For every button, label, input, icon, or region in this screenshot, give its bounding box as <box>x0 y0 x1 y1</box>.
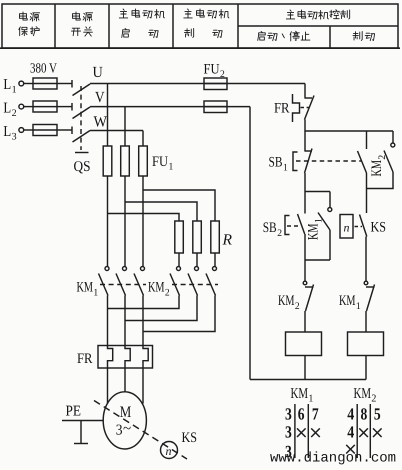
wire PE drop <box>80 421 82 444</box>
svg-text:1: 1 <box>93 288 98 299</box>
QS blade pole3 <box>73 131 91 143</box>
svg-text:L: L <box>3 77 11 93</box>
terminal L1 <box>19 81 24 86</box>
wire bus V <box>90 106 250 108</box>
svg-text:1: 1 <box>12 85 17 96</box>
svg-text:SB: SB <box>263 220 277 236</box>
wire branch to SB1 NO <box>366 131 368 149</box>
svg-text:1: 1 <box>283 163 288 174</box>
contactor KM2 main pole2 <box>195 267 199 271</box>
FR heater element1 <box>108 346 113 369</box>
wire phase3 below FU1 <box>142 176 144 266</box>
wire to KM1 aux <box>329 192 331 208</box>
header cell5 text 主电动机控制 <box>286 10 294 19</box>
svg-text:2: 2 <box>371 394 376 405</box>
svg-text:QS: QS <box>74 159 91 175</box>
svg-text:2: 2 <box>377 155 388 160</box>
svg-text:3: 3 <box>285 423 292 442</box>
header table outer border <box>2 4 398 48</box>
KM2 NC circle <box>303 281 307 285</box>
wire coil KM2 to bus <box>365 355 367 380</box>
QS fixed contact tick pole1 <box>71 80 73 88</box>
header subcell 制动 <box>353 31 362 40</box>
contactor KM2 main pole3 <box>213 267 217 271</box>
header table column divider 1 <box>54 4 56 48</box>
svg-text:2: 2 <box>295 301 300 312</box>
wire drop phase W <box>142 131 144 147</box>
resistor R element1 <box>175 221 184 253</box>
wire KM1 pole2 down <box>124 296 126 346</box>
wire phase2 below FU1 <box>124 176 126 266</box>
wire fuse to QS pole2 <box>57 106 72 108</box>
header table column divider 4 <box>237 4 239 48</box>
FR heater element3 <box>143 346 148 369</box>
svg-text:KM: KM <box>77 280 94 296</box>
svg-text:FU: FU <box>152 154 168 170</box>
wire tap U to resistor1 <box>108 214 180 222</box>
label KM2 rotated <box>369 155 388 177</box>
wire KM2 selfhold down <box>367 172 394 189</box>
svg-text:R: R <box>221 232 232 249</box>
QS handle bar <box>75 152 89 154</box>
bottom bus <box>250 379 366 381</box>
svg-text:L: L <box>3 101 11 117</box>
SB1 button bracket <box>293 152 298 171</box>
wire to SB2 <box>304 192 306 214</box>
svg-text:n: n <box>344 221 350 235</box>
KM2 table divider1 <box>356 404 358 458</box>
svg-text:FR: FR <box>77 351 93 367</box>
svg-text:KM: KM <box>306 223 322 240</box>
header table column divider 3 <box>172 4 174 48</box>
junction bar SB2/KM1aux bottom <box>305 259 330 261</box>
label KM1 rotated <box>306 218 325 240</box>
svg-text:L: L <box>3 124 11 140</box>
svg-text:FR: FR <box>274 101 290 117</box>
fuse FU2b on V <box>204 101 227 113</box>
FR NC contact tick <box>304 97 312 99</box>
svg-text:PE: PE <box>66 404 82 420</box>
KM1 table divider2 <box>307 404 309 458</box>
QS blade pole2 <box>73 107 91 119</box>
wire coil KM1 to bus <box>304 355 306 380</box>
terminal L2 <box>19 104 24 109</box>
svg-text:U: U <box>93 64 103 81</box>
KM1 NC tick <box>366 286 375 288</box>
svg-text:380 V: 380 V <box>30 62 57 77</box>
FR actuator bracket <box>293 94 300 122</box>
wire U to control <box>304 84 306 98</box>
svg-text:6: 6 <box>298 405 305 424</box>
svg-text:1: 1 <box>314 218 325 223</box>
header table sub-column divider <box>329 26 331 48</box>
svg-text:3: 3 <box>12 132 17 143</box>
wire KS down <box>365 237 367 282</box>
svg-text:2: 2 <box>277 228 282 239</box>
shaft dashed to speed relay <box>94 401 187 460</box>
svg-text:7: 7 <box>312 405 319 424</box>
wire KM1 pole3 down <box>142 296 144 346</box>
svg-text:2: 2 <box>165 288 170 299</box>
KM1 aux blade <box>318 213 330 231</box>
svg-text:KM: KM <box>291 386 309 402</box>
KS dashed link <box>355 226 363 228</box>
KM2 linkage dashed <box>172 284 218 286</box>
svg-text:KM: KM <box>354 386 372 402</box>
svg-text:M: M <box>120 404 132 421</box>
wire KM1 aux down <box>329 230 331 260</box>
svg-text:8: 8 <box>361 405 368 424</box>
FR heater element2 <box>125 346 130 369</box>
wire bus W <box>90 130 143 132</box>
SB2 actuator dashed <box>287 225 299 227</box>
contactor KM2 main pole1 <box>177 267 181 271</box>
wire KM2 pole3 merge <box>143 296 215 332</box>
fuse FU1c <box>139 146 148 176</box>
svg-text:FU: FU <box>204 62 220 78</box>
svg-text:3: 3 <box>116 423 123 439</box>
wire tap V to resistor2 <box>125 202 197 221</box>
coil KM1 <box>286 332 322 356</box>
header cell2 text 电源/开关 <box>72 12 80 20</box>
svg-text:4: 4 <box>347 423 354 442</box>
header subcell 启动、停止 <box>258 31 265 40</box>
fuse FU2a on U <box>204 78 227 90</box>
QS fixed contact tick pole2 <box>71 103 73 111</box>
KM1 table divider1 <box>294 404 296 458</box>
svg-text:KS: KS <box>182 430 198 446</box>
wire L3 to fuse <box>24 129 33 131</box>
wire drop phase V <box>124 107 126 146</box>
fuse FU main L1 <box>33 78 57 89</box>
KM1 NC circle <box>364 281 368 285</box>
fuse FU1a <box>103 146 112 176</box>
wire junction to KM2 NC <box>304 260 306 281</box>
QS blade pole1 <box>73 84 91 96</box>
KM1 linkage dashed <box>100 284 146 286</box>
ground bar <box>74 443 88 445</box>
wire KM1 NC to coil <box>365 311 367 333</box>
QS linkage dashed <box>80 86 82 150</box>
svg-text:1: 1 <box>308 394 313 405</box>
wire resistor3 down <box>214 253 216 266</box>
contactor KM1 main pole1 <box>105 267 109 271</box>
wire PE <box>62 420 104 422</box>
SB2 blade <box>298 214 305 234</box>
SB2 button bracket <box>285 216 290 235</box>
header table sub-row divider <box>238 25 398 27</box>
KM2 NC blade <box>306 285 314 312</box>
KM2 table row3 <box>346 445 355 454</box>
speed sensor n circle <box>161 442 178 459</box>
KM1 aux fixed circle <box>328 208 332 212</box>
fuse FU main L3 <box>33 125 57 136</box>
wire L2 to fuse <box>24 106 33 108</box>
header cell3 text 主电动机/启动 <box>119 9 127 18</box>
svg-text:n: n <box>166 444 172 458</box>
wire KM2 pole1 merge <box>108 296 180 309</box>
wire SB1 to junction <box>304 173 306 192</box>
control return wire from V <box>249 107 251 380</box>
svg-text:1: 1 <box>169 162 174 173</box>
wire SB2 down <box>304 234 306 260</box>
wire KM1 pole1 down <box>107 296 109 346</box>
wire fuse to QS pole3 <box>57 129 72 131</box>
SB1 NO blade <box>358 151 367 173</box>
contactor KM1 main pole2 <box>123 267 127 271</box>
thermal relay FR box <box>98 346 153 369</box>
wire FR to motor lead1 <box>107 368 109 404</box>
wire resistor1 down <box>178 253 180 266</box>
wire drop phase U <box>107 84 109 147</box>
wire phase1 below FU1 <box>107 176 109 266</box>
svg-text:KS: KS <box>371 220 387 236</box>
KS contact blade <box>360 215 367 237</box>
svg-text:~: ~ <box>123 421 131 437</box>
SB1 NC top terminal <box>304 131 306 151</box>
svg-text:www.diangon.com: www.diangon.com <box>270 451 396 467</box>
FR NC contact blade <box>305 96 315 120</box>
header table column divider 2 <box>108 4 110 48</box>
SB1 NC blade <box>305 149 313 174</box>
resistor R element2 <box>193 221 202 253</box>
svg-text:3: 3 <box>285 405 292 424</box>
KM1 NC blade <box>367 285 375 312</box>
svg-text:SB: SB <box>269 155 283 171</box>
svg-text:KM: KM <box>278 293 295 309</box>
svg-text:2: 2 <box>220 69 225 80</box>
KM2 table divider2 <box>369 404 371 458</box>
rail hook down to KM2 selfhold fixed <box>392 131 394 143</box>
svg-text:2: 2 <box>12 108 17 119</box>
SB1 actuator dashed long <box>296 160 361 162</box>
wire fuse to QS pole1 <box>57 83 72 85</box>
wire FR to motor lead2 <box>124 368 126 392</box>
wire FR contact to rail <box>304 120 306 132</box>
wire bus U <box>90 83 305 85</box>
wire KM2 pole2 merge <box>125 296 197 321</box>
FR actuator dashed link <box>301 107 310 109</box>
wire FR to motor lead3 <box>142 368 144 404</box>
svg-text:V: V <box>95 89 105 106</box>
svg-text:1: 1 <box>356 301 361 312</box>
speed relay n box <box>340 215 353 239</box>
wire resistor2 down <box>196 253 198 266</box>
coil KM2 <box>348 332 384 356</box>
svg-text:KM: KM <box>339 293 356 309</box>
terminal L3 <box>19 128 24 133</box>
fuse FU main L2 <box>33 101 57 112</box>
header cell1 text 电源/保护 <box>19 12 27 20</box>
contactor KM1 main pole3 <box>141 267 145 271</box>
wire L1 to fuse <box>24 83 33 85</box>
junction bar SB2/KM1aux top <box>305 191 330 193</box>
control rail top <box>305 130 393 132</box>
wire KM2 NC to coil <box>304 311 306 333</box>
KM2 selfhold blade <box>384 151 393 173</box>
svg-text:5: 5 <box>374 405 381 424</box>
KM2 selfhold fixed circle <box>391 143 395 147</box>
header cell4 text 主电动机/制动 <box>184 9 192 18</box>
resistor R element3 <box>211 221 220 253</box>
SB1 NC tick <box>304 150 312 152</box>
QS fixed contact tick pole3 <box>71 127 73 135</box>
svg-text:KM: KM <box>369 160 385 177</box>
KM2 NC tick <box>305 286 314 288</box>
motor M circle <box>103 392 146 449</box>
svg-text:KM: KM <box>148 280 165 296</box>
svg-text:4: 4 <box>347 405 354 424</box>
svg-text:W: W <box>94 114 108 131</box>
fuse FU1b <box>121 146 130 176</box>
wire tap W to resistor3 <box>143 190 215 221</box>
wire SB1 NO down <box>366 173 368 213</box>
